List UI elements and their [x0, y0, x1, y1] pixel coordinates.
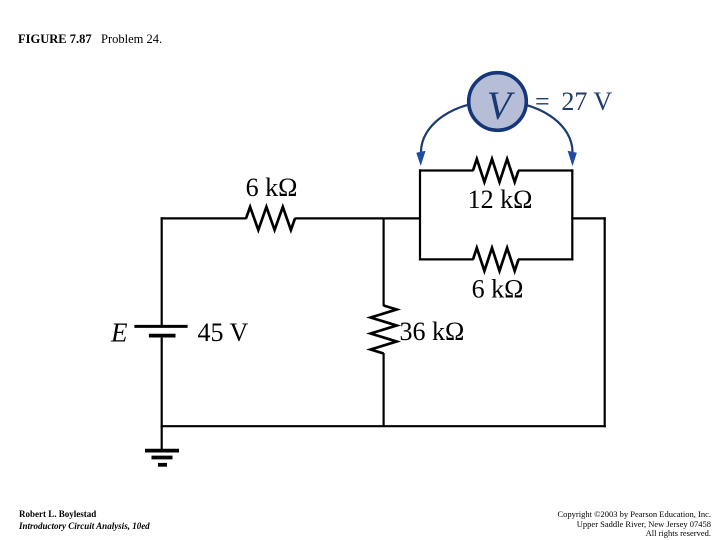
wire: parallel bank bottom branch, left of 6 kΩ [419, 258, 474, 260]
wire: left vertical from top-left corner down to battery + plate [161, 217, 163, 326]
voltmeter V: circle body [469, 73, 527, 131]
wire: top horizontal, left of 6 kΩ resistor [161, 217, 247, 219]
svg-text:36 kΩ: 36 kΩ [400, 317, 465, 346]
wire: outer right vertical down to bottom wire [604, 217, 606, 427]
voltmeter arc: dome from left terminal to right terminal (passes behind meter circle) [421, 101, 573, 152]
battery E: bottom (short, -) plate [149, 334, 176, 338]
voltmeter arrowhead: right, pointing to top-right corner of bank [568, 151, 577, 167]
svg-text:45 V: 45 V [198, 318, 249, 347]
ground symbol: bar 2 (middle) [152, 456, 173, 460]
footer left: author credit [19, 508, 150, 532]
wire: parallel bank top branch, right of 12 kΩ [518, 169, 573, 171]
wire: parallel bank right vertical edge [571, 169, 573, 260]
voltmeter arrowhead: left, pointing to top-left corner of bank [416, 151, 425, 166]
wire: left vertical from battery - plate down through bottom-left corner to ground [161, 338, 163, 449]
wire: parallel bank bottom branch, right of 6 kΩ [518, 258, 573, 260]
node: junction of top wire and 36 kΩ branch [383, 218, 385, 306]
wire: top horizontal, right of 6 kΩ resistor to parallel bank left edge [295, 217, 422, 219]
wire: connector from bank right edge to outer right wire [571, 217, 606, 219]
svg-text:= 27 V: = 27 V [535, 87, 612, 116]
resistor 6 kΩ (series, top wire) [246, 207, 295, 230]
wire: 36 kΩ branch lower section to bottom wire [383, 353, 385, 427]
svg-text:12 kΩ: 12 kΩ [468, 185, 533, 214]
resistor 36 kΩ (vertical branch) [371, 306, 397, 354]
resistor 6 kΩ (bottom parallel branch) [473, 248, 519, 271]
wire: parallel bank left vertical edge [419, 169, 421, 260]
resistor 12 kΩ (top parallel branch) [473, 159, 519, 182]
ground symbol: bar 1 (widest) [145, 449, 179, 453]
wire: parallel bank top branch, left of 12 kΩ [419, 169, 474, 171]
svg-text:6 kΩ: 6 kΩ [472, 275, 524, 304]
footer right: copyright [557, 510, 711, 539]
svg-text:6 kΩ: 6 kΩ [246, 173, 298, 202]
title: FIGURE 7.87 Problem 24. [18, 33, 162, 46]
battery E: top (long, +) plate [134, 325, 187, 328]
svg-text:E: E [110, 318, 128, 348]
ground symbol: bar 3 (shortest) [158, 463, 167, 467]
wire: bottom horizontal [161, 425, 606, 427]
